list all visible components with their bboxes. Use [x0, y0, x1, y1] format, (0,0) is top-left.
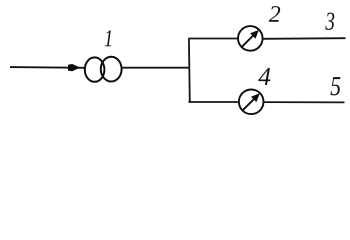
- arrowhead on incoming feeder: [68, 64, 80, 71]
- label 5 (bottom branch terminal): [331, 77, 341, 95]
- wire: bottom branch output to terminal 5: [264, 101, 345, 103]
- label 3 (top branch terminal): [325, 13, 334, 30]
- device 4: circle with diagonal arrow: [239, 90, 264, 115]
- label 4 (device on bottom branch): [258, 68, 270, 85]
- label 1 (transformer): [105, 30, 112, 46]
- transformer 1: right winding circle: [101, 57, 122, 82]
- wire: incoming feeder line: [10, 66, 86, 69]
- wire: top branch, bus to device 2: [188, 38, 238, 40]
- transformer 1: left winding circle: [85, 57, 105, 81]
- wire: top branch output to terminal 3: [263, 37, 346, 40]
- wire: transformer output to junction: [121, 67, 190, 69]
- wire: bottom branch, bus to device 4: [188, 101, 239, 103]
- wire: vertical bus / junction: [188, 39, 191, 103]
- label 2 (device on top branch): [269, 6, 280, 22]
- device 2: circle with diagonal arrow: [238, 26, 263, 51]
